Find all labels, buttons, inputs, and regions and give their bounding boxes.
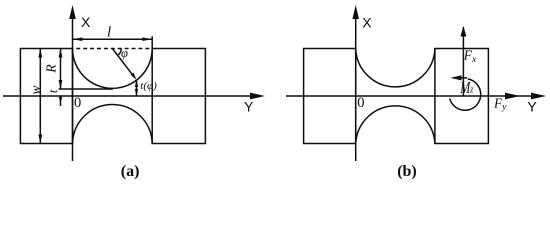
t lower arrowhead — [59, 97, 63, 103]
top notch arc (b) — [356, 49, 435, 87]
right block (a) — [152, 49, 205, 144]
svg-text:Mz: Mz — [459, 79, 473, 97]
Y axis (b) — [286, 95, 533, 97]
svg-text:Y: Y — [527, 98, 537, 114]
svg-text:0: 0 — [357, 95, 364, 111]
dashed hidden top edge (a) — [73, 48, 153, 50]
X axis arrowhead (a) — [69, 5, 76, 19]
svg-text:t: t — [46, 89, 60, 93]
moment Mz tangent arrow line — [453, 77, 467, 79]
dimension w line — [39, 49, 41, 144]
svg-text:l: l — [107, 25, 111, 41]
svg-text:φ: φ — [121, 46, 128, 60]
svg-text:Fx: Fx — [463, 48, 477, 65]
l left arrowhead — [73, 37, 83, 41]
t(phi) top arrowhead — [135, 80, 138, 87]
bottom notch arc (a) — [73, 105, 153, 144]
dimension l line — [73, 38, 153, 40]
svg-text:0: 0 — [74, 95, 81, 111]
l right arrowhead — [142, 37, 152, 41]
Y axis arrowhead (b) — [531, 93, 546, 100]
Y axis (a) — [3, 95, 252, 97]
Fx arrowhead — [460, 26, 466, 37]
right block (b) — [435, 49, 489, 144]
X axis (a) — [72, 18, 74, 161]
left block (b) — [304, 49, 356, 144]
t(phi) bottom arrowhead — [135, 89, 138, 96]
svg-text:(a): (a) — [121, 163, 140, 180]
w bottom arrowhead — [38, 135, 42, 144]
X axis (b) — [355, 18, 357, 161]
notch-root extension line — [59, 88, 113, 90]
svg-text:X: X — [81, 14, 91, 30]
svg-text:Y: Y — [244, 98, 254, 114]
dimension t lower arrow line — [60, 96, 62, 106]
top notch arc (a) — [73, 49, 153, 89]
radius line arrowhead — [131, 73, 137, 80]
svg-text:(b): (b) — [397, 163, 417, 180]
t(phi) dimension line — [136, 80, 138, 96]
svg-text:w: w — [28, 85, 43, 94]
force Fy arrowhead — [505, 93, 520, 100]
Mz arrowhead — [451, 75, 462, 80]
l right extension line — [151, 36, 153, 48]
radius line at angle phi — [112, 49, 134, 78]
w top arrowhead — [38, 49, 42, 58]
Y axis arrowhead (a) — [250, 93, 265, 100]
svg-text:t(φ): t(φ) — [140, 80, 157, 92]
svg-text:R: R — [44, 64, 59, 74]
R bottom arrowhead — [59, 80, 63, 89]
svg-text:X: X — [362, 14, 372, 30]
force Fx arrow line — [462, 27, 464, 96]
R top arrowhead — [59, 49, 63, 58]
dimension R line — [60, 49, 62, 90]
left block (a) — [20, 49, 72, 144]
X axis arrowhead (b) — [352, 5, 359, 19]
bottom notch arc (b) — [356, 106, 435, 144]
phi angle arc — [118, 49, 122, 56]
Mz circular arc — [450, 79, 481, 110]
